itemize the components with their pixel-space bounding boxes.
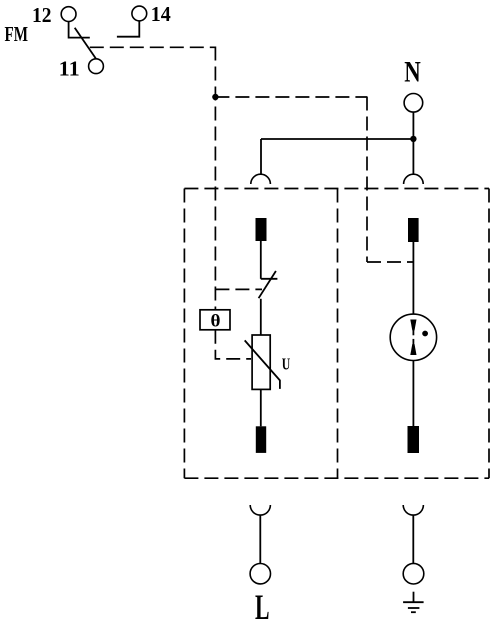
electrode bar right top xyxy=(408,218,419,242)
electrode bar left bottom xyxy=(256,426,266,453)
plug contact arc right bottom xyxy=(403,505,423,515)
junction dot A xyxy=(212,94,218,100)
gas discharge tube circle xyxy=(390,314,436,360)
gas tube upper gap stub xyxy=(412,330,414,335)
gas tube lower gap stub xyxy=(412,339,414,345)
varistor diagonal xyxy=(245,340,280,389)
gas tube upper electrode wedge xyxy=(410,320,416,331)
wire cross line xyxy=(261,138,413,140)
svg-text:11: 11 xyxy=(59,57,80,81)
gas tube lower electrode wedge xyxy=(410,344,416,355)
wire 12 stem and foot xyxy=(69,22,90,38)
thermal element box xyxy=(200,310,230,330)
plug contact arc left top xyxy=(251,174,271,184)
ground symbol xyxy=(403,592,424,613)
dashed branch right from junction xyxy=(215,96,367,98)
svg-text:12: 12 xyxy=(32,3,52,27)
wire below varistor xyxy=(260,389,262,426)
module divider dashed xyxy=(337,189,339,479)
plug contact arc left bottom xyxy=(250,505,270,515)
terminal circle L xyxy=(250,564,270,584)
wire below disconnector xyxy=(260,299,262,335)
svg-text:L: L xyxy=(255,587,270,621)
gas filled indicator dot xyxy=(422,331,428,337)
wire PE lead xyxy=(412,515,414,563)
wire gas tube upper xyxy=(412,242,414,314)
disconnector blade xyxy=(259,271,276,298)
dashed signal wire from FM contact xyxy=(90,46,216,48)
terminal circle 11 xyxy=(89,59,104,74)
dashed horizontal link to gas tube branch xyxy=(367,261,413,263)
wire gas tube lower xyxy=(412,361,414,427)
wire L lead xyxy=(259,515,261,563)
terminal circle PE xyxy=(403,563,424,584)
wire 14 stem and foot xyxy=(117,21,139,37)
electrode bar right bottom xyxy=(408,426,420,453)
terminal circle 14 xyxy=(132,6,147,21)
svg-text:θ: θ xyxy=(211,311,221,331)
wire N stem xyxy=(412,112,414,174)
svg-text:N: N xyxy=(404,56,421,89)
electrode bar left top xyxy=(256,218,267,241)
dashed link theta to varistor xyxy=(215,330,251,359)
dashed vertical run to thermal element xyxy=(214,47,216,310)
wire left drop to varistor branch xyxy=(260,139,262,174)
SPD enclosure dashed box xyxy=(184,189,489,479)
svg-text:U: U xyxy=(282,355,291,374)
disconnector foot xyxy=(261,278,278,280)
terminal circle 12 xyxy=(61,7,76,22)
junction dot N xyxy=(410,136,416,142)
terminal circle N xyxy=(404,94,423,113)
plug contact arc right top xyxy=(404,174,424,184)
switch blade FM changeover contact xyxy=(75,28,96,59)
varistor body xyxy=(252,335,270,389)
svg-text:FM: FM xyxy=(5,22,29,46)
dashed link thermal run to disconnector blade xyxy=(215,288,262,290)
wire varistor branch upper xyxy=(260,241,262,279)
svg-text:14: 14 xyxy=(151,2,171,26)
dashed vertical drop to gas tube branch xyxy=(366,97,368,263)
